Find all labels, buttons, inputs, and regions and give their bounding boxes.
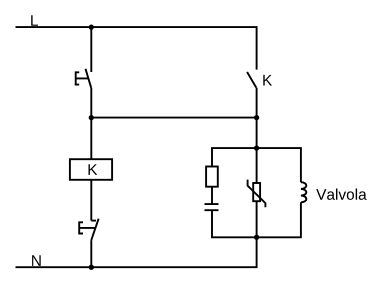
wire: S1 to mid junction bbox=[90, 88, 92, 118]
push-button S1 actuator bracket bbox=[76, 72, 89, 84]
wire: mid horizontal hold wire bbox=[91, 117, 256, 119]
wire: mid junction down to coil K bbox=[90, 118, 92, 160]
wire: coil K to stop button bbox=[90, 180, 92, 221]
inductor L1 (valve solenoid coil) bbox=[301, 182, 306, 202]
push-button S2 blade bbox=[91, 219, 98, 240]
contact K (relay NO contact) blade bbox=[247, 72, 256, 88]
node N: bottom neutral wire and riser up to network bottom rail bbox=[16, 237, 257, 267]
junction at mid wire left bbox=[89, 115, 94, 120]
resistor R1 bbox=[206, 167, 218, 187]
wire: contact K down through junction to network top rail bbox=[256, 88, 258, 149]
wire: varistor to bottom rail bbox=[256, 201, 258, 237]
push-button S1 (NO start button) blade bbox=[86, 69, 92, 88]
label K coil bbox=[89, 164, 98, 175]
wire: S2 to N bbox=[90, 240, 92, 267]
junction at network bottom rail bbox=[254, 235, 259, 240]
wire: network bottom rail with corner leads bbox=[212, 202, 301, 237]
wire: left vertical from L junction to push-button S1 bbox=[90, 27, 92, 72]
varistor RV1 diagonal stroke bbox=[248, 180, 266, 208]
label K contact bbox=[263, 75, 272, 86]
varistor RV1 body bbox=[253, 183, 260, 201]
push-button S2 actuator bracket bbox=[79, 222, 95, 233]
label Valvola bbox=[316, 189, 367, 200]
label N bbox=[32, 255, 41, 266]
label L bbox=[31, 15, 38, 26]
capacitor C1 bbox=[205, 204, 219, 210]
wire: R1 to capacitor C1 bbox=[211, 187, 213, 204]
junction at L / left branch bbox=[89, 24, 94, 29]
junction at network top rail bbox=[254, 145, 259, 150]
relay coil K box bbox=[70, 159, 112, 180]
node L: top supply wire and corner down to contact K bbox=[16, 27, 257, 70]
wire: network top rail with corner leads bbox=[212, 148, 301, 182]
wire: top rail to varistor RV1 bbox=[256, 148, 258, 183]
junction at N / left branch bbox=[89, 265, 94, 270]
push-button S2 (NC stop button) seat tick bbox=[91, 220, 96, 222]
junction at mid wire right bbox=[254, 115, 259, 120]
